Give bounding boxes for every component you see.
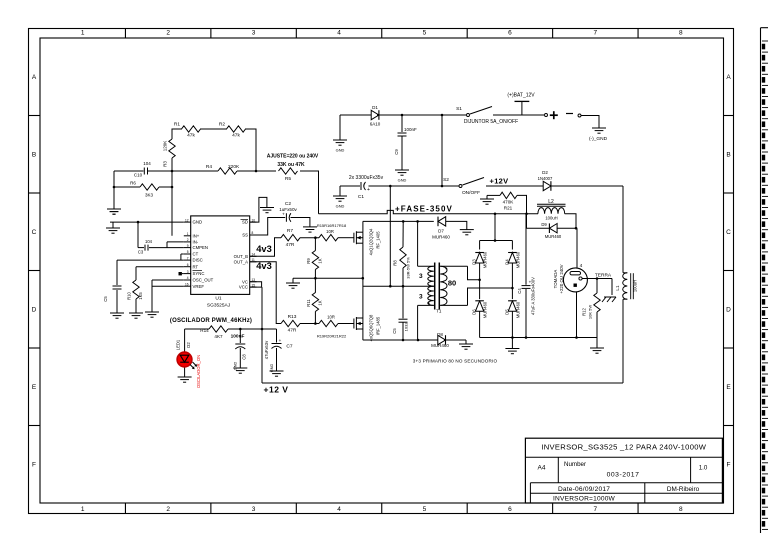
svg-text:+: + (282, 212, 285, 217)
svg-text:(+)BAT_12V: (+)BAT_12V (507, 93, 535, 99)
svg-text:R8: R8 (393, 260, 398, 266)
svg-text:2x 3300uFx35v: 2x 3300uFx35v (349, 175, 384, 181)
svg-text:6: 6 (187, 263, 189, 267)
svg-text:+12V: +12V (490, 177, 509, 186)
svg-text:D1: D1 (372, 105, 378, 110)
svg-text:5: 5 (423, 30, 427, 37)
svg-text:9: 9 (187, 244, 189, 248)
svg-text:003-2017: 003-2017 (607, 472, 640, 479)
svg-text:R2: R2 (219, 122, 225, 128)
svg-text:3: 3 (252, 30, 256, 37)
svg-text:GND: GND (270, 364, 274, 373)
svg-text:D6: D6 (472, 309, 477, 315)
svg-text:80: 80 (448, 279, 456, 288)
svg-text:SS: SS (242, 233, 248, 238)
svg-text:D3: D3 (472, 259, 477, 265)
svg-text:MUR460: MUR460 (516, 251, 521, 268)
svg-text:MUR460: MUR460 (545, 234, 562, 239)
svg-text:+FASE-350V: +FASE-350V (395, 205, 453, 214)
svg-text:+: + (279, 338, 282, 343)
svg-text:SG3525AJ: SG3525AJ (207, 303, 231, 309)
svg-text:4xQ5Q6Q7Q8: 4xQ5Q6Q7Q8 (369, 314, 374, 341)
svg-text:1.0: 1.0 (699, 465, 708, 472)
svg-text:R12: R12 (582, 307, 587, 315)
svg-text:IRF_1485: IRF_1485 (376, 316, 381, 335)
svg-text:47uF A 330uFx400V: 47uF A 330uFx400V (531, 277, 536, 315)
svg-text:R9: R9 (306, 258, 311, 264)
svg-text:R7: R7 (287, 228, 293, 234)
svg-text:7: 7 (594, 506, 598, 513)
svg-text:33R-5W 5%: 33R-5W 5% (406, 257, 411, 279)
svg-text:VCC: VCC (239, 285, 248, 290)
svg-text:OUT_A: OUT_A (234, 259, 248, 264)
svg-text:47R: 47R (286, 242, 295, 248)
svg-text:6: 6 (508, 506, 512, 513)
svg-text:D9: D9 (541, 222, 547, 227)
svg-text:2: 2 (166, 30, 170, 37)
svg-text:1K: 1K (318, 300, 323, 305)
svg-text:33K ou 47K: 33K ou 47K (277, 162, 305, 168)
svg-text:D4: D4 (505, 259, 510, 265)
svg-text:10R: 10R (327, 315, 335, 320)
svg-text:100uH: 100uH (545, 216, 557, 221)
svg-text:16: 16 (185, 282, 189, 286)
svg-text:D: D (32, 306, 37, 313)
svg-text:103z: 103z (404, 323, 409, 332)
svg-text:OSCILADOR_ON: OSCILADOR_ON (196, 355, 201, 388)
svg-text:R4: R4 (206, 164, 212, 170)
svg-text:(OSCILADOR PWM_46KHz): (OSCILADOR PWM_46KHz) (170, 318, 252, 324)
svg-text:100nF: 100nF (404, 127, 417, 132)
svg-text:R11: R11 (306, 299, 311, 307)
svg-text:GND: GND (193, 220, 203, 225)
svg-text:1: 1 (81, 506, 85, 513)
svg-text:A4: A4 (538, 465, 546, 472)
svg-text:6: 6 (508, 30, 512, 37)
svg-text:104: 104 (143, 161, 151, 166)
svg-text:ON/OFF: ON/OFF (462, 190, 480, 196)
svg-text:GND: GND (336, 148, 345, 153)
svg-text:R19R20R21R22: R19R20R21R22 (317, 334, 347, 339)
svg-text:RT: RT (193, 264, 199, 269)
svg-text:AJUSTE=220 ou 240V: AJUSTE=220 ou 240V (267, 154, 319, 160)
svg-text:R5: R5 (285, 176, 291, 182)
svg-text:SYNC: SYNC (193, 271, 205, 276)
svg-text:47uFx63v: 47uFx63v (264, 340, 269, 359)
svg-text:IN-: IN- (193, 240, 199, 245)
svg-text:VC: VC (242, 279, 248, 284)
svg-text:MUR460: MUR460 (431, 343, 449, 348)
svg-text:C5: C5 (103, 296, 108, 302)
svg-text:4v3: 4v3 (256, 244, 272, 254)
svg-text:S1: S1 (456, 106, 462, 112)
svg-text:8: 8 (252, 231, 254, 235)
svg-text:INVERSOR_SG3525 _12 PARA 240V-: INVERSOR_SG3525 _12 PARA 240V-1000W (541, 443, 706, 452)
svg-text:B: B (32, 151, 36, 158)
svg-text:3: 3 (419, 293, 423, 300)
svg-text:E: E (32, 384, 37, 391)
svg-text:2: 2 (187, 238, 189, 242)
svg-text:R6: R6 (130, 181, 136, 186)
svg-text:4: 4 (337, 30, 341, 37)
svg-text:4: 4 (187, 276, 189, 280)
svg-text:6A10: 6A10 (370, 122, 381, 127)
svg-text:5: 5 (187, 250, 189, 254)
svg-text:R14: R14 (200, 328, 209, 333)
svg-text:OUT_B: OUT_B (234, 254, 248, 259)
svg-text:MUR460: MUR460 (516, 301, 521, 318)
svg-text:R10: R10 (127, 291, 132, 299)
svg-text:1K: 1K (318, 258, 323, 263)
svg-text:R15R16R17R18: R15R16R17R18 (317, 223, 347, 228)
svg-text:D7: D7 (438, 228, 444, 233)
svg-text:DIJUNTOR 5A_ON/OFF: DIJUNTOR 5A_ON/OFF (464, 119, 518, 125)
svg-text:5: 5 (423, 506, 427, 513)
svg-text:MUR460: MUR460 (483, 251, 488, 268)
svg-text:MUR460: MUR460 (483, 301, 488, 318)
svg-text:3: 3 (419, 273, 423, 280)
svg-text:120K: 120K (163, 141, 168, 152)
svg-text:SD: SD (242, 220, 248, 225)
svg-text:GND: GND (398, 178, 407, 183)
svg-text:C: C (726, 229, 731, 236)
svg-text:220K: 220K (228, 164, 240, 170)
svg-text:2: 2 (166, 506, 170, 513)
svg-text:LED1: LED1 (176, 339, 181, 350)
svg-text:1N4007: 1N4007 (538, 176, 553, 181)
svg-text:C5: C5 (392, 328, 397, 334)
svg-text:D8: D8 (437, 332, 443, 337)
svg-text:C1: C1 (358, 194, 364, 200)
svg-text:D2: D2 (186, 342, 191, 348)
svg-text:3: 3 (187, 270, 189, 274)
svg-text:CMPEN: CMPEN (193, 245, 209, 250)
svg-text:MUR460: MUR460 (432, 235, 450, 240)
svg-text:4: 4 (337, 506, 341, 513)
svg-text:7: 7 (187, 256, 189, 260)
svg-text:C9: C9 (394, 149, 399, 155)
svg-text:T1: T1 (436, 308, 442, 313)
svg-text:L1: L1 (615, 285, 620, 291)
svg-text:+12 V: +12 V (264, 385, 289, 395)
svg-text:100uH: 100uH (633, 280, 638, 292)
svg-text:INVERSOR=1000W: INVERSOR=1000W (553, 496, 616, 503)
svg-text:104: 104 (145, 239, 153, 244)
svg-text:+: + (367, 187, 370, 193)
svg-text:3K3: 3K3 (145, 193, 154, 198)
svg-text:Date-06/09/2017: Date-06/09/2017 (558, 486, 610, 493)
svg-text:1: 1 (81, 30, 85, 37)
svg-text:A: A (32, 74, 37, 81)
svg-text:Number: Number (564, 461, 586, 468)
svg-text:47k: 47k (232, 133, 240, 139)
svg-text:470K: 470K (503, 200, 515, 205)
svg-text:R21: R21 (504, 206, 513, 211)
svg-text:47k: 47k (187, 133, 195, 139)
svg-text:3: 3 (252, 506, 256, 513)
svg-text:1K5: 1K5 (138, 292, 143, 300)
svg-text:C4: C4 (517, 288, 522, 294)
svg-text:C: C (32, 229, 37, 236)
svg-text:3+3 PRIMARIO 80 NO SECUNDO: 3+3 PRIMARIO 80 NO SECUNDORIO (413, 359, 498, 364)
svg-text:RF_1405: RF_1405 (376, 231, 381, 249)
svg-text:10R: 10R (326, 229, 334, 234)
svg-text:F: F (727, 461, 731, 468)
svg-text:10K 5W: 10K 5W (588, 305, 593, 319)
svg-text:D2: D2 (542, 170, 548, 175)
svg-text:F: F (32, 461, 36, 468)
svg-text:100nF: 100nF (231, 333, 245, 339)
svg-text:VREF: VREF (193, 284, 205, 289)
svg-text:TOMADA: TOMADA (553, 270, 558, 289)
svg-text:B: B (726, 151, 730, 158)
svg-text:4v3: 4v3 (256, 261, 272, 271)
svg-text:IN+: IN+ (193, 233, 200, 238)
svg-text:12: 12 (185, 218, 189, 222)
svg-text:D5: D5 (505, 309, 510, 315)
svg-text:D: D (726, 306, 731, 313)
svg-text:4xQ1Q2Q3Q4: 4xQ1Q2Q3Q4 (369, 228, 374, 255)
svg-text:S2: S2 (443, 177, 449, 183)
svg-text:R3: R3 (163, 161, 168, 167)
svg-text:GND: GND (336, 204, 345, 209)
svg-text:GND: GND (234, 362, 238, 371)
svg-text:8: 8 (679, 30, 683, 37)
svg-text:DISC: DISC (193, 258, 203, 263)
svg-text:47R: 47R (288, 328, 297, 334)
svg-text:(-)_GND: (-)_GND (589, 136, 608, 142)
svg-text:R1: R1 (174, 122, 180, 128)
svg-text:U1: U1 (215, 296, 221, 302)
svg-text:C3: C3 (138, 250, 144, 255)
svg-text:CT: CT (193, 252, 199, 257)
svg-text:OSC_OUT: OSC_OUT (193, 278, 214, 283)
svg-text:+220 OU 240V: +220 OU 240V (559, 264, 564, 293)
svg-text:DM-Ribeiro: DM-Ribeiro (667, 486, 700, 493)
svg-text:A: A (726, 74, 731, 81)
svg-text:R13: R13 (288, 314, 297, 320)
svg-text:7: 7 (594, 30, 598, 37)
svg-text:1: 1 (187, 232, 189, 236)
svg-text:8: 8 (679, 506, 683, 513)
svg-text:4: 4 (580, 263, 583, 269)
svg-text:C8: C8 (242, 354, 247, 360)
svg-text:C7: C7 (286, 344, 292, 350)
svg-text:C10: C10 (134, 173, 143, 178)
svg-text:4K7: 4K7 (214, 334, 223, 339)
svg-text:E: E (726, 384, 731, 391)
